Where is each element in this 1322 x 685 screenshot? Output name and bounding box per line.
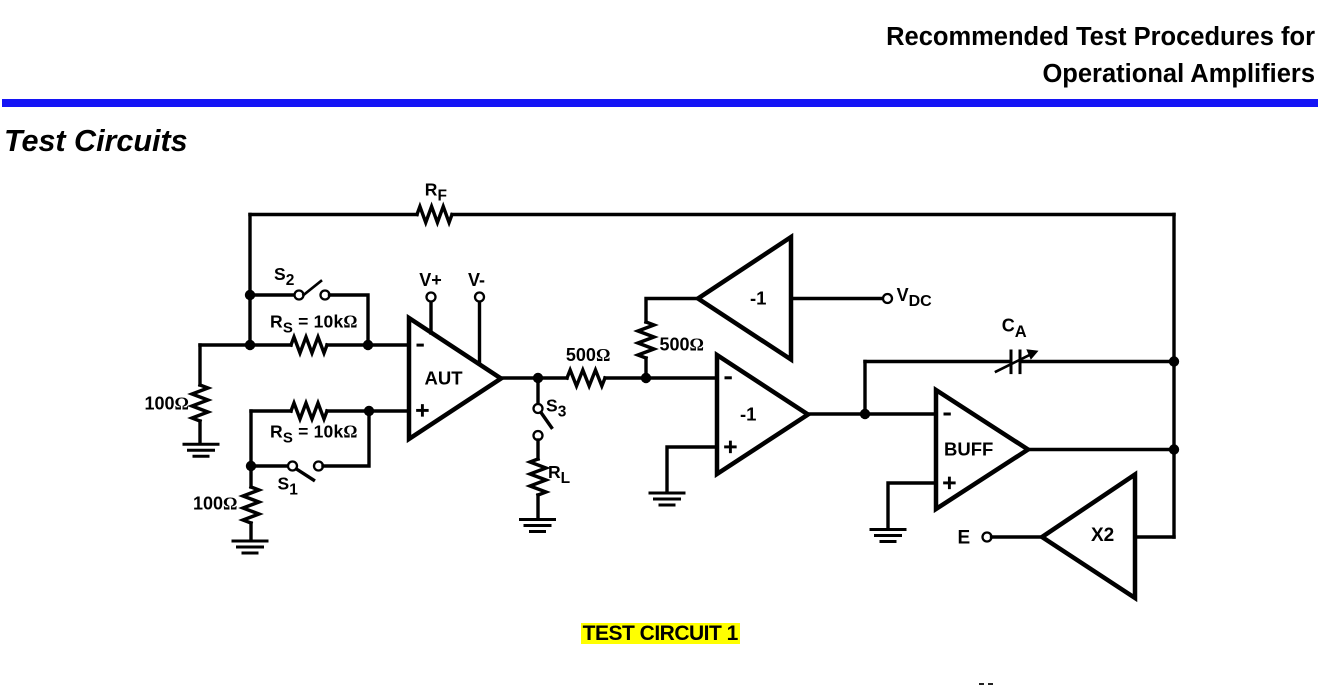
wire 100ohm to ground stem bbox=[198, 421, 201, 443]
wire upper RS row right to AUT minus bbox=[327, 343, 409, 346]
junction dot S1 node bbox=[246, 461, 256, 471]
wire lower RS row right to AUT plus bbox=[327, 409, 409, 412]
wire E to X2 apex bbox=[992, 535, 1043, 538]
blue divider bar bbox=[2, 99, 1318, 107]
label BUFF minus bbox=[944, 413, 951, 416]
resistor 500ohm horizontal bbox=[567, 370, 605, 386]
label -1 middle minus bbox=[725, 376, 732, 379]
bottom edge text fragment bbox=[979, 683, 984, 685]
terminal E circle bbox=[983, 533, 992, 542]
wire -1 plus input to ground bbox=[667, 447, 717, 492]
terminal V- circle bbox=[475, 293, 484, 302]
resistor 100ohm bottom bbox=[243, 487, 259, 523]
resistor 100ohm left bbox=[192, 385, 208, 421]
svg-text:E: E bbox=[958, 528, 971, 549]
svg-text:X2: X2 bbox=[1091, 525, 1114, 546]
svg-text:RL: RL bbox=[548, 462, 570, 487]
wire 500ohm vertical to top -1 amp apex bbox=[646, 299, 698, 323]
wire -1 output to BUFF bbox=[808, 412, 936, 415]
ground G4 bbox=[650, 493, 684, 505]
terminal VDC circle bbox=[883, 294, 892, 303]
label BUFF plus bbox=[945, 478, 955, 488]
wire lower RS row left corner bbox=[251, 409, 291, 412]
resistor RL bbox=[530, 459, 546, 495]
wire CA branch horizontal right of cap bbox=[1022, 360, 1175, 363]
junction dot AUT output bbox=[533, 373, 543, 383]
svg-text:-1: -1 bbox=[750, 288, 766, 309]
label AUT plus bbox=[418, 406, 428, 416]
svg-text:RS = 10kΩ: RS = 10kΩ bbox=[270, 311, 358, 336]
switch S1 bbox=[288, 462, 323, 481]
svg-text:CA: CA bbox=[1002, 316, 1027, 342]
ground G5 bbox=[871, 530, 905, 542]
section title bbox=[4, 124, 188, 159]
terminal V- stem bbox=[478, 302, 481, 365]
op-amp BUFF bbox=[936, 390, 1028, 509]
wire RL to ground bbox=[536, 495, 539, 519]
ground G3 bbox=[521, 520, 555, 532]
wire S2 row right with corner down bbox=[330, 295, 369, 345]
wire CA branch horizontal left of cap bbox=[865, 360, 1009, 363]
junction dot -1 output bbox=[860, 409, 870, 419]
wire X2 output to right trunk bbox=[1135, 535, 1174, 538]
junction dot BUFF output bbox=[1169, 444, 1179, 454]
resistor RF bbox=[417, 207, 452, 223]
junction dot upper RS right bbox=[363, 340, 373, 350]
wire AUT output row bbox=[501, 376, 567, 379]
svg-text:AUT: AUT bbox=[425, 367, 464, 388]
svg-text:RS = 10kΩ: RS = 10kΩ bbox=[270, 422, 358, 447]
svg-text:S3: S3 bbox=[546, 396, 567, 421]
svg-text:S2: S2 bbox=[274, 264, 294, 289]
wire right trunk vertical bbox=[1172, 215, 1175, 538]
junction dot upper RS left bbox=[245, 340, 255, 350]
wire BUFF plus input to ground bbox=[888, 483, 936, 529]
header line 1 bbox=[886, 23, 1315, 52]
svg-text:500Ω: 500Ω bbox=[566, 345, 610, 365]
switch S3 bbox=[534, 404, 552, 440]
wire top feedback line left segment bbox=[250, 213, 417, 216]
wire top -1 output to VDC bbox=[791, 297, 883, 300]
junction dot CA right bbox=[1169, 356, 1179, 366]
svg-text:100Ω: 100Ω bbox=[193, 494, 237, 514]
wire S1 row right with corner up bbox=[323, 411, 369, 466]
svg-text:-1: -1 bbox=[740, 404, 756, 425]
terminal V+ circle bbox=[427, 293, 436, 302]
op-amp X2 (pointing left) bbox=[1042, 475, 1135, 599]
svg-text:VDC: VDC bbox=[897, 285, 933, 310]
ground G2 bbox=[233, 541, 267, 553]
terminal V+ stem bbox=[429, 302, 432, 334]
wire lower-left vertical bbox=[249, 411, 252, 466]
svg-text:100Ω: 100Ω bbox=[145, 394, 189, 414]
svg-text:V-: V- bbox=[468, 270, 485, 290]
wire left vertical from feedback to RS node bbox=[248, 215, 251, 346]
switch S2 bbox=[295, 281, 330, 300]
wire S3 stem from output node bbox=[536, 378, 539, 404]
ground G1 bbox=[184, 444, 218, 456]
wire S2 row left bbox=[250, 293, 295, 296]
svg-text:BUFF: BUFF bbox=[944, 439, 993, 460]
wire S1 row left bbox=[251, 464, 288, 467]
resistor RS upper bbox=[291, 337, 327, 353]
junction dot lower RS right bbox=[364, 406, 374, 416]
svg-text:RF: RF bbox=[425, 179, 447, 204]
resistor RS lower bbox=[291, 403, 327, 419]
wire CA branch vertical bbox=[863, 362, 866, 415]
op-amp AUT bbox=[409, 318, 501, 439]
resistor 500ohm vertical bbox=[638, 322, 654, 358]
op-amp -1 top (pointing left) bbox=[698, 237, 791, 360]
svg-text:500Ω: 500Ω bbox=[660, 335, 704, 355]
wire top feedback line right segment bbox=[452, 213, 1174, 216]
junction dot 500ohm node bbox=[641, 373, 651, 383]
wire upper RS row left bbox=[200, 343, 291, 346]
wire S3 to RL bbox=[536, 440, 539, 459]
svg-text:V+: V+ bbox=[419, 270, 442, 290]
op-amp -1 middle bbox=[717, 355, 808, 474]
wire 100ohm branch down bbox=[198, 345, 201, 385]
svg-text:S1: S1 bbox=[278, 474, 299, 499]
wire 500ohm vertical lower stem bbox=[644, 358, 647, 378]
caption TEST CIRCUIT 1 bbox=[581, 623, 740, 644]
junction dot S2 node bbox=[245, 290, 255, 300]
label AUT minus bbox=[417, 344, 424, 347]
capacitor CA plates bbox=[1011, 351, 1020, 373]
capacitor CA arrow bbox=[996, 349, 1039, 371]
header line 2 bbox=[1042, 60, 1315, 89]
wire from S1 node down to 100ohm bbox=[249, 466, 252, 487]
label -1 middle plus bbox=[726, 442, 736, 452]
wire 500ohm to -1 amp input bbox=[605, 376, 717, 379]
wire BUFF output to right trunk bbox=[1028, 448, 1174, 451]
wire bottom 100ohm to ground bbox=[249, 523, 252, 540]
